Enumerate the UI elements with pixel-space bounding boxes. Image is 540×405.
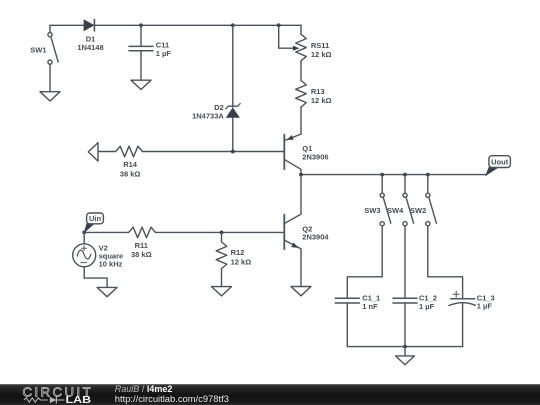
svg-text:1N4148: 1N4148 <box>77 43 103 52</box>
svg-text:SW3: SW3 <box>364 206 380 215</box>
svg-text:RS11: RS11 <box>311 41 329 50</box>
svg-text:2N3904: 2N3904 <box>302 233 329 242</box>
svg-text:SW4: SW4 <box>387 206 404 215</box>
svg-text:Uout: Uout <box>491 157 509 166</box>
svg-text:R14: R14 <box>123 160 138 169</box>
svg-text:LAB: LAB <box>66 395 92 405</box>
svg-text:C1_2: C1_2 <box>419 293 437 302</box>
svg-text:http://circuitlab.com/c978tf3: http://circuitlab.com/c978tf3 <box>115 393 229 404</box>
svg-text:38 kΩ: 38 kΩ <box>131 250 152 259</box>
svg-text:SW2: SW2 <box>410 206 426 215</box>
svg-text:D2: D2 <box>214 103 224 112</box>
svg-text:38 kΩ: 38 kΩ <box>120 169 141 178</box>
svg-text:2N3906: 2N3906 <box>302 153 328 162</box>
svg-text:R12: R12 <box>231 248 245 257</box>
svg-text:1N4733A: 1N4733A <box>192 112 224 121</box>
svg-text:12 kΩ: 12 kΩ <box>311 50 332 59</box>
svg-text:1 µF: 1 µF <box>419 302 435 311</box>
svg-text:R11: R11 <box>135 241 148 250</box>
svg-text:10 kHz: 10 kHz <box>99 260 123 269</box>
svg-text:12 kΩ: 12 kΩ <box>311 96 332 105</box>
svg-text:1 nF: 1 nF <box>362 302 378 311</box>
svg-text:12 kΩ: 12 kΩ <box>231 257 252 266</box>
svg-text:1 µF: 1 µF <box>477 302 493 311</box>
svg-text:R13: R13 <box>311 87 325 96</box>
svg-text:SW1: SW1 <box>30 45 46 54</box>
svg-text:C1_1: C1_1 <box>362 293 380 302</box>
svg-text:1 µF: 1 µF <box>156 49 172 58</box>
svg-text:Uin: Uin <box>89 214 102 223</box>
